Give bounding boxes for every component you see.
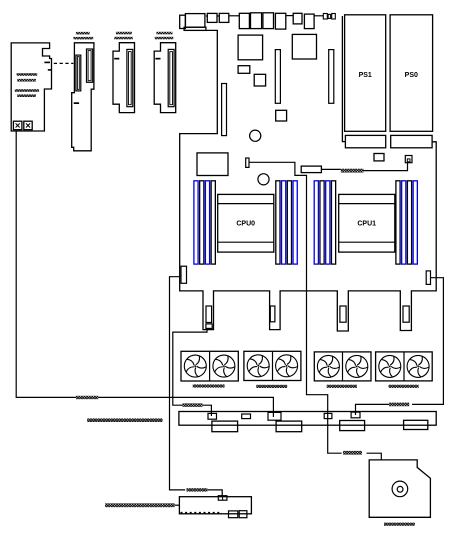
rear port big box	[185, 14, 205, 28]
mid connector box 2	[301, 166, 321, 173]
signal key bar	[246, 158, 249, 167]
small chip square 2	[276, 110, 287, 121]
rear port narrow box	[180, 15, 186, 28]
svg-text:PS1: PS1	[359, 72, 372, 79]
bottom card edge ticks	[181, 512, 223, 514]
small component rect	[238, 66, 250, 74]
rear port box D	[275, 13, 285, 29]
CPU0 socket	[218, 194, 274, 252]
rear port box A	[239, 13, 249, 28]
bottom card lower box 2	[239, 511, 247, 518]
midplane connector c2	[268, 412, 281, 420]
wire box2 to hatch	[321, 168, 340, 170]
midplane connector c3	[351, 412, 360, 418]
card 1 connector hatch row 4	[17, 94, 36, 97]
disk spindle inner circle	[397, 486, 403, 492]
fan connector bar tab2	[270, 306, 275, 322]
wire card1 hatch to c2	[98, 397, 273, 417]
card 1 connector hatch row 2	[17, 79, 36, 82]
mounting hole circle 2	[258, 174, 269, 185]
wire riser card1 to midplane c2	[16, 131, 76, 397]
wire hatch to bar connector c3	[356, 404, 390, 415]
left edge connector bar	[181, 266, 187, 283]
bottom card lower box 1	[229, 511, 238, 518]
PS1 docking connector	[345, 135, 385, 147]
long cable hatch to bottom card	[105, 503, 175, 507]
card 2 slot A	[76, 55, 81, 91]
fan pair 3 cable hatch	[327, 385, 357, 388]
fan pair 1	[181, 351, 238, 381]
bottom card top connector	[218, 496, 227, 501]
fan pair 1 cable hatch	[193, 384, 225, 387]
card 4 slot	[168, 49, 174, 106]
power supply PS1	[345, 15, 386, 132]
wire port s2 to A	[229, 15, 240, 17]
jumper box 3	[332, 14, 336, 20]
fan connector bar tab3	[340, 306, 346, 322]
disk spindle outer circle	[392, 481, 408, 497]
fan tab1 cable box	[206, 324, 212, 329]
card 4 edge tick	[155, 58, 160, 60]
wire into bottom card connector	[208, 490, 222, 496]
chip U2	[292, 34, 316, 59]
rear port box E	[293, 13, 302, 24]
card 2 hatch row 2	[73, 37, 93, 40]
fan pair 4 cable hatch	[389, 385, 419, 388]
cable hatch fan tab wire	[183, 403, 203, 406]
fan connector bar tab1	[206, 306, 212, 323]
rear port small box 1	[207, 13, 217, 22]
svg-text:CPU0: CPU0	[236, 221, 255, 228]
small rect near PS	[374, 154, 384, 161]
card 3 hatch row 1	[116, 32, 132, 35]
fan pair 4	[376, 352, 433, 381]
midplane lower connector 1	[212, 421, 238, 432]
svg-text:CPU1: CPU1	[357, 221, 376, 228]
card 2 hatch row 1	[76, 32, 90, 35]
board right-top edge	[342, 16, 345, 142]
card 4 outline	[154, 43, 176, 113]
cable hatch bottom left card wire	[187, 488, 208, 491]
card 1 connector hatch row 1	[17, 73, 38, 76]
power supply PS0	[390, 15, 433, 132]
midplane lower connector 4	[404, 420, 428, 429]
wire port D to E	[286, 15, 293, 17]
rear port small box 2	[219, 13, 229, 22]
fan pair 3	[314, 352, 371, 381]
mid board box	[197, 153, 228, 176]
card 1 port box with X 1	[13, 121, 22, 130]
wire right connector down right side	[412, 278, 443, 405]
card 1 edge tick 2	[48, 69, 52, 71]
fan pair 2 cable hatch	[256, 385, 287, 388]
wire hatch to bottom card edge	[175, 504, 180, 506]
riser card 2 outline	[72, 43, 94, 151]
wire fan tab1 to midplane	[173, 328, 207, 405]
DIMM group CPU0 left	[194, 181, 215, 264]
vertical slot 2	[329, 50, 334, 104]
rear port base plate	[184, 27, 206, 30]
wire hatch into c1	[203, 405, 212, 416]
small connector box with key	[405, 156, 412, 163]
card 1 port box with X 2	[24, 121, 32, 130]
midplane board	[179, 412, 436, 426]
card 2 slot B	[87, 49, 93, 82]
cable hatch mid right	[341, 169, 364, 173]
midplane small box 2	[324, 413, 332, 418]
standalone cable hatch left	[87, 418, 162, 422]
wire left connector to bottom card	[170, 277, 186, 490]
wire port F to jumpers	[314, 15, 323, 17]
svg-text:PS0: PS0	[405, 72, 418, 79]
cable hatch right side wire	[389, 403, 409, 407]
card 1 edge tick 1	[44, 62, 50, 64]
midplane lower connector 3	[340, 421, 365, 431]
card 4 hatch row 2	[155, 37, 174, 40]
card 4 hatch row 1	[156, 32, 172, 35]
midplane small box mid	[242, 414, 251, 419]
bottom card (OCP module)	[179, 497, 251, 514]
DIMM group CPU1 right	[396, 181, 417, 264]
card 1 connector hatch row 3	[15, 89, 39, 92]
card 2 edge tick	[74, 102, 79, 104]
rear port box C	[263, 13, 274, 29]
jumper box 2	[328, 14, 331, 18]
rear port box B	[251, 13, 262, 29]
DIMM group CPU1 left	[314, 181, 335, 264]
wire port big to s1	[206, 15, 207, 17]
small chip square 1	[254, 74, 265, 86]
vertical slot 1	[275, 50, 280, 104]
mounting hole circle 1	[250, 130, 261, 141]
chip U1	[238, 35, 263, 60]
cable hatch on divider route	[343, 451, 362, 455]
card 3 outline	[113, 43, 135, 113]
right edge connector bar	[426, 271, 430, 285]
midplane connector c1	[208, 413, 217, 419]
fan pair 2	[244, 351, 301, 380]
PS0 docking connector	[391, 135, 432, 147]
card 3 edge tick	[114, 58, 119, 60]
motherboard outline with fan tabs	[180, 30, 437, 331]
fan connector bar tab4	[403, 306, 409, 322]
CPU1 socket	[339, 194, 395, 252]
jumper box 1	[323, 14, 327, 20]
wire hatch to disk unit	[367, 453, 382, 460]
card 3 slot	[127, 49, 133, 106]
DIMM group CPU0 right	[276, 181, 297, 264]
wire hatch to key box	[364, 163, 408, 171]
disk drive unit	[369, 460, 430, 517]
dashed link card1 to card2	[54, 62, 74, 64]
card 3 hatch row 2	[114, 37, 133, 40]
midplane lower connector 2	[276, 421, 302, 432]
rear port box F	[304, 14, 314, 29]
wire port s1 to s2	[217, 15, 219, 17]
vertical slot 3 (board edge)	[222, 84, 227, 136]
cable hatch card1 wire	[76, 396, 98, 399]
disk unit cable hatch	[384, 523, 415, 526]
wire key bar to divider route	[249, 162, 342, 453]
riser card 1 (left PCIe card) outline	[11, 43, 51, 131]
